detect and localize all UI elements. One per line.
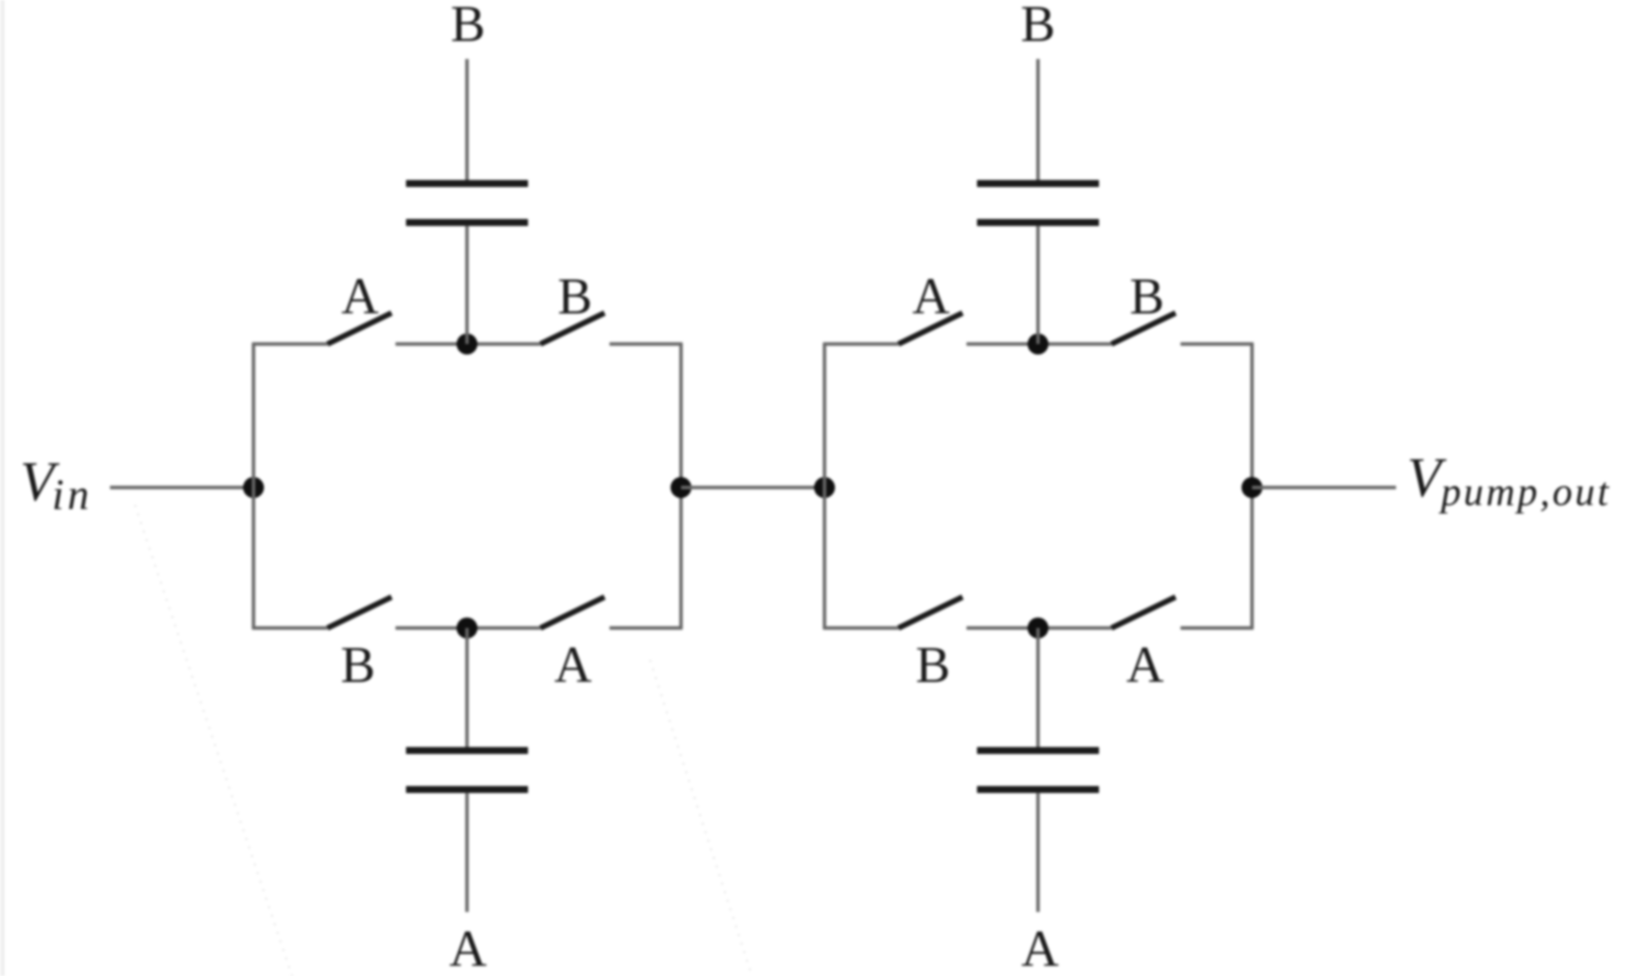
label Vin xyxy=(20,451,92,519)
wire C3 bottom lead xyxy=(1036,226,1039,344)
svg-text:B: B xyxy=(451,0,486,53)
wire stage2 top rail right segment xyxy=(1181,342,1254,345)
wire stage1 bottom rail middle segment xyxy=(396,626,541,629)
wire stage1 top rail right segment xyxy=(610,342,683,345)
wire stage2 bottom rail middle segment xyxy=(967,626,1112,629)
capacitor C2 (stage 1 bottom) xyxy=(406,751,528,790)
wire C2 top lead xyxy=(465,628,468,747)
svg-text:B: B xyxy=(558,269,593,326)
node stage1 top (capacitor C1 bottom terminal) xyxy=(457,334,478,355)
wire C4 top lead xyxy=(1036,628,1039,747)
switch A2 (bottom-right, stage 1) xyxy=(541,597,605,628)
switch A1 (top-left, stage 1) xyxy=(328,313,392,344)
svg-text:B: B xyxy=(341,637,376,694)
svg-text:A: A xyxy=(449,921,487,976)
node stage1 bottom (capacitor C2 top terminal) xyxy=(457,618,478,639)
capacitor C1 (stage 1 top) xyxy=(406,184,528,223)
node stage2 input junction xyxy=(814,477,835,498)
wire stage2 bottom rail left segment xyxy=(823,626,899,629)
wire stage2 right rail xyxy=(1250,344,1253,628)
svg-text:B: B xyxy=(1021,0,1056,53)
switch B2 (bottom-left, stage 1) xyxy=(328,597,392,628)
wire stage2 left rail xyxy=(823,344,826,628)
wire inter-stage link xyxy=(681,486,825,489)
switch B4 (bottom-left, stage 2) xyxy=(899,597,963,628)
switch B1 (top-right, stage 1) xyxy=(541,313,605,344)
svg-text:A: A xyxy=(341,269,379,326)
svg-text:A: A xyxy=(554,637,592,694)
svg-text:B: B xyxy=(916,637,951,694)
wire Vin lead xyxy=(110,486,254,489)
wire stage1 top rail left segment xyxy=(252,342,328,345)
svg-text:B: B xyxy=(1130,269,1165,326)
node stage1 output junction xyxy=(671,477,692,498)
wire C1 top lead xyxy=(465,59,468,180)
label Vpump,out xyxy=(1407,447,1611,514)
svg-text:pump,out: pump,out xyxy=(1438,469,1611,514)
wire stage1 bottom rail left segment xyxy=(252,626,328,629)
svg-text:A: A xyxy=(1021,921,1059,976)
wire stage2 top rail left segment xyxy=(823,342,899,345)
capacitor C3 (stage 2 top) xyxy=(977,184,1099,223)
node stage2 bottom (capacitor C4 top terminal) xyxy=(1028,618,1049,639)
node stage2 top (capacitor C3 bottom terminal) xyxy=(1028,334,1049,355)
svg-text:in: in xyxy=(52,472,92,519)
switch A3 (top-left, stage 2) xyxy=(899,313,963,344)
svg-text:A: A xyxy=(912,269,950,326)
wire C3 top lead xyxy=(1036,59,1039,180)
capacitor C4 (stage 2 bottom) xyxy=(977,751,1099,790)
node pump output junction xyxy=(1242,477,1263,498)
wire stage1 bottom rail right segment xyxy=(610,626,683,629)
wire C1 bottom lead xyxy=(465,226,468,344)
wire stage2 top rail middle segment xyxy=(967,342,1112,345)
wire stage1 right rail xyxy=(679,344,682,628)
wire output lead xyxy=(1252,486,1396,489)
wire C2 bottom lead xyxy=(465,793,468,912)
node Vin junction xyxy=(243,477,264,498)
switch B3 (top-right, stage 2) xyxy=(1112,313,1176,344)
wire C4 bottom lead xyxy=(1036,793,1039,912)
wire stage1 top rail middle segment xyxy=(396,342,541,345)
wire stage2 bottom rail right segment xyxy=(1181,626,1254,629)
wire stage1 left rail xyxy=(252,344,255,628)
svg-text:A: A xyxy=(1126,637,1164,694)
switch A4 (bottom-right, stage 2) xyxy=(1112,597,1176,628)
